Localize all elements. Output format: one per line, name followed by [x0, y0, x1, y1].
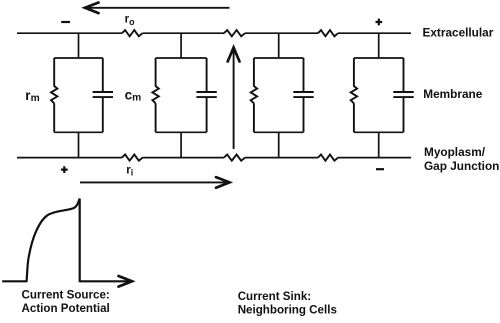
svg-text:Neighboring Cells: Neighboring Cells [238, 304, 337, 317]
svg-text:Membrane: Membrane [423, 87, 482, 101]
capacitor cm1 (membrane capacitance, right leg) [93, 58, 113, 132]
wire: extracellular rail segment before ro3 [245, 32, 318, 34]
svg-text:Current Sink:: Current Sink: [238, 290, 311, 303]
resistor ri1 (r_i) [122, 155, 143, 161]
wire: branch 2 top conductor [156, 57, 207, 59]
resistor ro1 (r_o) [122, 30, 143, 36]
svg-text:cm: cm [125, 88, 142, 104]
wire: extracellular rail segment before ro1 [17, 32, 122, 34]
wire: extracellular rail segment before ro2 [143, 32, 225, 34]
plus sign (extracellular, right) [376, 19, 383, 26]
svg-text:Action Potential: Action Potential [22, 302, 110, 315]
svg-text:Myoplasm/: Myoplasm/ [424, 145, 486, 159]
wire: myoplasm rail segment before ri2 [143, 157, 225, 159]
resistor rm1 (membrane resistance, left leg) [51, 58, 57, 132]
svg-text:Current Source:: Current Source: [22, 289, 110, 302]
wire: bottom stub branch 3 [278, 132, 280, 157]
resistor rm2 (membrane resistance, left leg) [152, 58, 158, 132]
minus sign (extracellular, left) [61, 21, 70, 23]
wire: bottom stub branch 2 [180, 132, 182, 157]
svg-text:ri: ri [126, 164, 133, 177]
action potential waveform (current source) [2, 199, 130, 281]
arrow: membrane current (upward) [228, 48, 240, 150]
wire: top stub branch 2 [180, 33, 182, 58]
svg-text:Gap Junction: Gap Junction [424, 159, 499, 173]
minus sign (myoplasm, right) [376, 168, 384, 170]
wire: branch 4 bottom conductor [354, 131, 404, 133]
wire: branch 2 bottom conductor [156, 131, 207, 133]
arrow: extracellular current flow (leftward) [85, 3, 230, 14]
arrow head: action-potential axis (rightward) [119, 276, 133, 287]
wire: top stub branch 1 [78, 33, 80, 58]
svg-text:rm: rm [25, 88, 39, 104]
svg-text:ro: ro [125, 14, 135, 27]
wire: myoplasm rail segment before ri3 [245, 157, 318, 159]
arrow: myoplasm current flow (rightward) [80, 177, 230, 188]
resistor ro3 (r_o) [318, 30, 338, 36]
wire: branch 3 top conductor [254, 57, 304, 59]
resistor ri2 (r_i) [224, 155, 245, 161]
svg-text:Extracellular: Extracellular [423, 26, 494, 40]
wire: branch 3 bottom conductor [254, 131, 304, 133]
wire: bottom stub branch 1 [78, 132, 80, 157]
wire: branch 1 top conductor [54, 57, 103, 59]
wire: top stub branch 3 [278, 33, 280, 58]
wire: top stub branch 4 [378, 33, 380, 58]
capacitor cm4 (membrane capacitance, right leg) [393, 58, 413, 132]
resistor rm4 (membrane resistance, left leg) [351, 58, 357, 132]
plus sign (myoplasm, left) [61, 166, 68, 173]
wire: bottom stub branch 4 [378, 132, 380, 157]
wire: extracellular rail right segment [338, 32, 411, 34]
resistor rm3 (membrane resistance, left leg) [251, 58, 257, 132]
resistor ri3 (r_i) [318, 155, 338, 161]
wire: branch 4 top conductor [354, 57, 404, 59]
resistor ro2 (r_o) [224, 30, 245, 36]
capacitor cm3 (membrane capacitance, right leg) [293, 58, 313, 132]
wire: branch 1 bottom conductor [54, 131, 103, 133]
wire: myoplasm rail segment before ri1 [17, 157, 122, 159]
wire: myoplasm rail right segment [338, 157, 411, 159]
capacitor cm2 (membrane capacitance, right leg) [196, 58, 216, 132]
